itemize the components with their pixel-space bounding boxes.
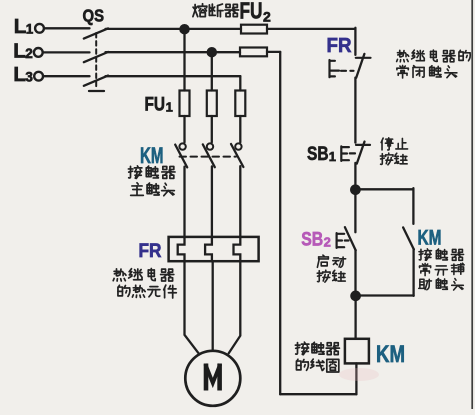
- svg-text:KM: KM: [376, 341, 405, 368]
- switch QS pole 3 blade: [84, 76, 108, 86]
- wire drop phase3: [239, 76, 241, 90]
- contactor KM main pole1: [179, 143, 185, 149]
- label stop button line1: [381, 138, 393, 150]
- wire control right top: [354, 28, 356, 55]
- svg-text:1: 1: [166, 100, 173, 115]
- wire junction to coil: [354, 298, 356, 339]
- junction node L2 drop: [208, 48, 216, 56]
- wire coil to bottom: [355, 363, 357, 394]
- label rongduanqi (fuse): [193, 4, 207, 17]
- wire motor lead 2: [212, 261, 214, 351]
- wire L3 QS to drop: [106, 75, 241, 77]
- label KM aux contact line2: [420, 263, 431, 275]
- fuse FU1 pole1: [180, 91, 190, 117]
- wire KM2 to FR heater 2: [205, 166, 212, 261]
- wire FR to SB1: [354, 78, 356, 143]
- wire L2 QS to FU2b: [106, 51, 241, 53]
- SB2 actuator: [337, 233, 345, 248]
- wire branch to KM aux: [355, 188, 413, 224]
- svg-text:3: 3: [25, 70, 33, 85]
- label KM aux contact line1: [419, 249, 431, 260]
- wire KM aux down: [412, 249, 414, 296]
- svg-text:FU: FU: [145, 94, 166, 116]
- watermark pink smudge: [339, 368, 379, 381]
- KM linkage dashed bar: [180, 156, 237, 158]
- wire fuse1 to KM1: [183, 116, 185, 142]
- label coil line1: [295, 342, 309, 354]
- wire KM1 to FR heater 1: [178, 167, 185, 262]
- contactor KM main pole2: [207, 143, 213, 149]
- wire drop phase1: [183, 29, 185, 91]
- label thermal relay NC contact line2: [397, 65, 408, 77]
- relay FR NC contact: [356, 57, 371, 59]
- svg-text:KM: KM: [418, 226, 442, 249]
- border scan line right edge: [471, 0, 473, 409]
- label KM aux contact line3: [419, 279, 432, 289]
- wire bottom return: [280, 393, 356, 395]
- wire motor lead 3: [229, 261, 241, 353]
- wire left riser: [279, 52, 281, 394]
- label contactor main contact line2: [131, 183, 144, 196]
- wire KM3 to FR heater 3: [234, 166, 241, 261]
- switch QS pole 2 blade: [84, 52, 108, 62]
- wire junction to SB2: [354, 192, 356, 232]
- junction node lower: [351, 292, 359, 300]
- QS linkage dashed bar: [95, 33, 97, 89]
- label start button line1: [317, 255, 328, 267]
- wire L3 to QS: [43, 75, 89, 77]
- node L3 terminal: [34, 72, 43, 81]
- svg-text:1: 1: [26, 22, 34, 37]
- wire motor lead 1: [185, 261, 199, 353]
- svg-text:SB: SB: [301, 229, 323, 251]
- contactor KM main pole3: [235, 143, 241, 149]
- svg-text:1: 1: [329, 149, 336, 164]
- svg-text:KM: KM: [140, 143, 164, 168]
- svg-text:FR: FR: [139, 240, 162, 262]
- svg-text:2: 2: [263, 8, 271, 24]
- label stop button line2: [380, 153, 393, 165]
- FR actuator: [330, 60, 340, 77]
- wire FU2b to left riser: [267, 51, 280, 53]
- svg-text:L: L: [14, 15, 27, 38]
- wire FU2a to control: [267, 28, 355, 30]
- label start button line2: [317, 270, 330, 282]
- wire L2 to QS: [43, 51, 90, 53]
- motor M circle: [185, 351, 240, 406]
- svg-text:QS: QS: [83, 5, 105, 25]
- label coil line2: [296, 359, 308, 370]
- wire L1 QS to FU2a: [106, 28, 242, 30]
- svg-text:FU: FU: [240, 0, 263, 24]
- fuse FU1 pole3: [235, 91, 245, 117]
- junction node upper: [351, 186, 359, 194]
- wire SB1 to junction: [354, 163, 356, 187]
- label M motor: [205, 364, 220, 391]
- svg-text:L: L: [13, 39, 26, 62]
- button SB2 NO contact: [345, 227, 356, 250]
- wire lower branch to KM aux: [356, 294, 414, 296]
- svg-text:2: 2: [324, 235, 331, 250]
- button SB1 NC contact: [356, 144, 370, 146]
- junction node L1 drop: [180, 25, 188, 33]
- label thermal element line1: [113, 269, 126, 281]
- svg-text:L: L: [13, 63, 26, 86]
- wire L1 to QS: [44, 27, 89, 29]
- label thermal relay NC contact line1: [397, 50, 409, 62]
- contactor KM aux NO contact: [403, 227, 414, 249]
- switch QS pole 1 blade: [84, 28, 108, 38]
- wire drop phase2: [211, 52, 213, 90]
- thermal relay FR heater box: [169, 237, 259, 261]
- fuse FU1 pole2: [207, 91, 217, 117]
- svg-text:FR: FR: [327, 34, 352, 57]
- wire fuse2 to KM2: [211, 116, 213, 142]
- fuse FU2 lower: [240, 48, 267, 57]
- contactor coil KM box: [345, 339, 369, 364]
- SB1 actuator: [341, 146, 349, 161]
- node L2 terminal: [34, 48, 43, 57]
- label thermal element line2: [118, 285, 130, 296]
- label contactor main contact line1: [128, 166, 142, 178]
- svg-text:2: 2: [25, 46, 33, 61]
- svg-text:SB: SB: [307, 143, 329, 165]
- node L1 terminal: [35, 24, 44, 33]
- fuse FU2 upper: [241, 25, 267, 34]
- wire SB2 to junction lower: [354, 250, 356, 293]
- wire fuse3 to KM3: [239, 116, 241, 142]
